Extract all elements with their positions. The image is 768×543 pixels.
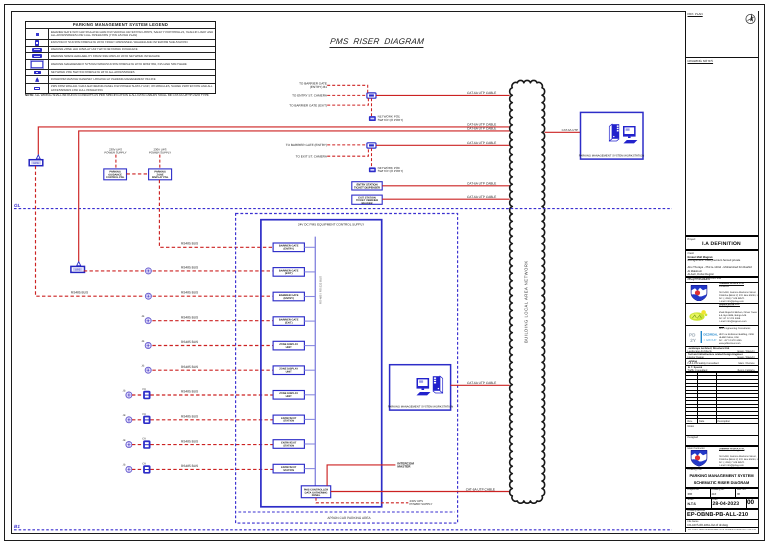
legend row 3: parking display symbol xyxy=(26,46,215,53)
drawing title: PMS RISER DIAGRAM xyxy=(329,37,424,48)
svg-text:JB: JB xyxy=(141,340,144,343)
svg-text:CAT-6A UTP CABLE: CAT-6A UTP CABLE xyxy=(467,195,496,199)
equipment room dashed enclosure xyxy=(236,214,458,524)
svg-text:STATION: STATION xyxy=(283,469,294,472)
junction box JB row 7 xyxy=(123,414,133,423)
level line over cloud xyxy=(506,208,548,210)
legend row 6: network switch symbol xyxy=(26,69,215,76)
wire: to barrier gate exit (red dashed) xyxy=(327,98,368,105)
wire row 9 (red dashed) xyxy=(132,468,273,470)
wire: to entry station (red dashed) xyxy=(327,94,367,96)
wire: D6 tap to RS485 bus xyxy=(304,369,315,371)
svg-text:(ENTRY) B1: (ENTRY) B1 xyxy=(310,85,327,89)
svg-text:RS485 BUS: RS485 BUS xyxy=(71,290,88,294)
svg-text:RS485 BUS: RS485 BUS xyxy=(181,242,198,246)
wire: ES1 to LAN cloud (red) xyxy=(382,185,509,187)
wire: D8 tap to RS485 bus xyxy=(304,418,315,420)
svg-text:MASTER: MASTER xyxy=(397,465,411,469)
wire: D7 tap to RS485 bus xyxy=(304,394,315,396)
svg-text:JB: JB xyxy=(123,389,126,392)
svg-text:CAT-6A UTP CABLE: CAT-6A UTP CABLE xyxy=(467,141,496,145)
svg-text:+ GROUP: + GROUP xyxy=(703,337,716,341)
svg-text:RS485 BUS: RS485 BUS xyxy=(181,265,198,269)
svg-text:UPS: UPS xyxy=(75,269,81,272)
field device box D5: ZONE DISPLAY UNIT xyxy=(273,341,304,350)
wire: to exit station (red dashed) xyxy=(327,148,368,156)
consultant 2 logo block xyxy=(686,303,758,304)
wire: D2 tap to RS485 bus xyxy=(304,271,315,273)
junction box JB row 8 xyxy=(123,439,133,448)
svg-text:POWER SUPPLY: POWER SUPPLY xyxy=(104,151,126,155)
wire: controller 230V UPS supply (red dashed) xyxy=(316,498,408,503)
svg-text:RS485 BUS: RS485 BUS xyxy=(181,315,198,319)
POE switch P1 xyxy=(369,116,376,121)
project/drawing no cells xyxy=(686,487,758,489)
svg-text:CAT-6A UTP: CAT-6A UTP xyxy=(562,128,578,132)
svg-text:RS485 BUS: RS485 BUS xyxy=(181,365,198,369)
field device box D9: ENTRY/EXIT STATION xyxy=(273,440,304,449)
consultant 1 logo block xyxy=(686,282,758,303)
drawing notes section xyxy=(686,57,758,58)
field device box D4: BARRIER GATE (EXIT) xyxy=(273,317,304,326)
field device box D3: BARRIER GATE (ENTRY) xyxy=(273,292,304,301)
legend row 2: entry/exit station symbol xyxy=(26,39,215,46)
svg-text:APRON CAR PARKING AREA: APRON CAR PARKING AREA xyxy=(327,516,371,520)
project section xyxy=(686,235,758,237)
svg-text:CAT-6A UTP CABLE: CAT-6A UTP CABLE xyxy=(467,127,496,131)
scale/date row xyxy=(686,497,758,499)
field device box D6: ZONE DISPLAY UNIT xyxy=(273,366,304,375)
wire: NS1 drop to POE switch (red dashed) xyxy=(371,98,373,116)
svg-text:UPS: UPS xyxy=(33,162,39,165)
wire: ES2 to LAN cloud (red) xyxy=(382,198,509,200)
UPS box U1 (left riser top) xyxy=(29,160,43,166)
svg-text:RS-485 / RS-232 BUS: RS-485 / RS-232 BUS xyxy=(319,276,323,304)
svg-text:TO BARRIER GATE (EXIT): TO BARRIER GATE (EXIT) xyxy=(289,103,327,107)
client section xyxy=(686,249,758,251)
wire: D10 tap to RS485 bus xyxy=(304,468,315,470)
svg-text:CAT-6A UTP CABLE: CAT-6A UTP CABLE xyxy=(466,487,495,491)
svg-text:CR: CR xyxy=(142,413,146,416)
svg-text:RS485 BUS: RS485 BUS xyxy=(181,291,198,295)
svg-text:2Y: 2Y xyxy=(690,338,696,343)
power supply box PS2 (zone display) xyxy=(149,169,172,180)
wire: NS2 drop to POE switch 2 (red dashed) xyxy=(371,148,373,167)
network switch NS2 xyxy=(367,143,376,148)
svg-text:DEZIREAL D.: DEZIREAL D. xyxy=(703,332,718,336)
legend row 1: barrier gate symbol xyxy=(26,28,215,39)
card reader CR row 8 xyxy=(142,438,150,449)
RS485 bus riser (light blue) xyxy=(314,237,316,486)
drawing title section xyxy=(686,467,758,469)
PMS controller panel CP1 xyxy=(301,486,330,498)
wire: CAT-6A from cloud to left riser 2 (red) xyxy=(77,131,510,266)
wire: D1 tap to RS485 bus xyxy=(304,246,315,248)
svg-text:TO BARRIER GATE (ENTRY): TO BARRIER GATE (ENTRY) xyxy=(286,143,327,147)
PMS equipment cabinet (solid blue) xyxy=(261,220,382,507)
svg-text:JB: JB xyxy=(123,439,126,442)
svg-text:CR: CR xyxy=(142,438,146,441)
drawing number section xyxy=(686,508,758,510)
svg-text:(EXIT): (EXIT) xyxy=(285,321,293,324)
svg-text:CAT-6A UTP CABLE: CAT-6A UTP CABLE xyxy=(467,182,496,186)
level line: ground level (blue dashed) xyxy=(14,208,672,210)
wire row 3 (red dashed) xyxy=(152,320,273,322)
LAN cloud: building local area network xyxy=(510,80,545,503)
legend row 7: intercom symbol xyxy=(26,75,215,82)
wire: CAT-6A from cloud to left riser 1 (red) xyxy=(36,127,509,159)
wire: row A continuation to controller cabinet xyxy=(153,295,274,297)
wire: controller to intercom master (red) xyxy=(327,465,395,486)
wire row 7 (red dashed) xyxy=(132,419,273,421)
exit station ES2 xyxy=(352,195,382,205)
field device box D8: ENTRY/EXIT STATION xyxy=(273,415,304,424)
junction box JB row A xyxy=(145,293,151,299)
svg-text:CAT-6A UTP CABLE: CAT-6A UTP CABLE xyxy=(467,381,496,385)
wire: cloud to BMS workstation (red) xyxy=(545,131,581,133)
file name row xyxy=(686,519,758,520)
svg-text:GL: GL xyxy=(14,203,21,208)
svg-text:TICKET DISPENSER: TICKET DISPENSER xyxy=(354,186,380,189)
svg-text:RS485 BUS: RS485 BUS xyxy=(181,464,198,468)
issuing firm logo block xyxy=(686,445,758,447)
POE switch P2 xyxy=(369,167,376,172)
legend note xyxy=(25,93,210,97)
wire: NS2 to LAN cloud (red) xyxy=(376,144,510,146)
svg-text:JB: JB xyxy=(141,315,144,318)
wire: RS485 bus row B (from U2 right, red dashed) xyxy=(84,270,273,272)
svg-text:CONTROL PNL: CONTROL PNL xyxy=(106,176,125,179)
junction box JB row 3 xyxy=(141,315,151,324)
junction box JB row 4 xyxy=(141,340,151,349)
svg-text:PARKING MANAGEMENT SYSTEM WORK: PARKING MANAGEMENT SYSTEM WORKSTATION xyxy=(579,154,645,157)
legend table: PARKING MANAGEMENT SYSTEM LEGEND xyxy=(25,21,216,95)
svg-text:JB: JB xyxy=(123,464,126,467)
junction box JB row 6 xyxy=(123,389,133,398)
svg-text:CAT-6A UTP CABLE: CAT-6A UTP CABLE xyxy=(467,91,496,95)
power supply box PS1 (guidance) xyxy=(104,169,127,180)
field device box D10: ENTRY/EXIT STATION xyxy=(273,464,304,473)
field device box D1: BARRIER GATE (ENTRY) xyxy=(273,243,304,252)
svg-text:PARKING MANAGEMENT SYSTEM WORK: PARKING MANAGEMENT SYSTEM WORKSTATION xyxy=(388,405,454,408)
svg-text:UNIT: UNIT xyxy=(286,346,292,349)
svg-text:SWITCH (8 PORT): SWITCH (8 PORT) xyxy=(378,169,403,173)
junction box JB row 9 xyxy=(123,464,133,473)
wire: link PS1 to PS2 (red dashed) xyxy=(127,173,149,175)
svg-text:RS485 BUS: RS485 BUS xyxy=(181,439,198,443)
junction box JB row 5 xyxy=(141,365,151,374)
svg-text:(EXIT): (EXIT) xyxy=(285,272,293,275)
svg-text:JB: JB xyxy=(141,365,144,368)
svg-text:JB: JB xyxy=(123,414,126,417)
svg-text:POWER SUPPLY: POWER SUPPLY xyxy=(149,151,171,155)
svg-text:RS485 BUS: RS485 BUS xyxy=(181,340,198,344)
wire: D5 tap to RS485 bus xyxy=(304,345,315,347)
wire: D3 tap to RS485 bus xyxy=(304,296,315,298)
legend row 5: workstation symbol xyxy=(26,59,215,69)
field device box D2: BARRIER GATE (EXIT) xyxy=(273,268,304,277)
consultant 3 logo block xyxy=(686,325,758,326)
level line: basement level (blue dashed) xyxy=(14,529,672,531)
wire: PS2 drop to barrier gate row 0 (red dashed) xyxy=(159,180,273,248)
wire row 5 (red dashed) xyxy=(152,369,273,371)
entry station ES1 xyxy=(352,182,382,190)
svg-text:(ENTRY): (ENTRY) xyxy=(283,248,294,251)
PMS workstation box W1 (parking office) xyxy=(388,365,454,410)
north arrow compass xyxy=(744,12,757,25)
svg-text:CR: CR xyxy=(142,388,146,391)
svg-text:UNIT: UNIT xyxy=(286,371,292,374)
svg-text:SWITCH (8 PORT): SWITCH (8 PORT) xyxy=(378,118,403,122)
svg-text:B1: B1 xyxy=(14,524,20,529)
wire: W1 to LAN cloud (red) xyxy=(451,384,510,386)
design consultants bar xyxy=(686,276,758,278)
svg-text:DISPLAY PNL: DISPLAY PNL xyxy=(152,176,169,179)
svg-text:RS485 BUS: RS485 BUS xyxy=(181,415,198,419)
card reader CR row 7 xyxy=(142,413,150,424)
svg-text:PD: PD xyxy=(689,332,696,337)
wire: supply drop to PS2 (red dashed) xyxy=(159,155,161,169)
network switch NS1 xyxy=(367,93,376,98)
legend row 8: pms controller symbol xyxy=(26,83,215,94)
wire: to barrier gate entry (red dashed) xyxy=(327,85,368,93)
svg-text:RS485 BUS: RS485 BUS xyxy=(181,390,198,394)
svg-text:(ENTRY): (ENTRY) xyxy=(283,297,294,300)
wire: D9 tap to RS485 bus xyxy=(304,443,315,445)
card reader CR row 9 xyxy=(142,462,150,473)
card reader CR row 6 xyxy=(142,388,150,399)
title block panel xyxy=(685,11,758,533)
svg-text:UNIT: UNIT xyxy=(286,395,292,398)
junction box JB row B xyxy=(145,268,151,274)
project name I.A DEFINITION xyxy=(686,241,758,247)
equipment room inner partition (dashed) xyxy=(238,511,454,513)
legend row 4: parking counting display symbol xyxy=(26,52,215,59)
svg-text:CR: CR xyxy=(142,462,146,465)
wire row 8 (red dashed) xyxy=(132,444,273,446)
svg-text:PANEL: PANEL xyxy=(312,494,321,497)
UPS box U2 (left riser bottom) xyxy=(71,266,85,272)
svg-text:POWER SUPPLY: POWER SUPPLY xyxy=(410,502,433,506)
svg-text:TO ENTRY ST. CAMERA: TO ENTRY ST. CAMERA xyxy=(292,94,328,98)
bottom note row xyxy=(686,527,758,528)
wire: controller to LAN cloud (red) xyxy=(331,491,510,493)
ref plan section xyxy=(688,12,703,16)
field device box D7: ZONE DISPLAY UNIT xyxy=(273,391,304,400)
wire row 4 (red dashed) xyxy=(152,345,273,347)
wire: NS1 to LAN cloud (red) xyxy=(376,94,510,96)
wire: to barrier gate entry 2 (red dashed) xyxy=(327,144,367,146)
svg-text:24V DC PMS EQUIPMENT CONTROL S: 24V DC PMS EQUIPMENT CONTROL SUPPLY xyxy=(298,222,364,226)
wire: supply drop to PS1 (red dashed) xyxy=(115,155,117,169)
svg-text:STATION: STATION xyxy=(283,444,294,447)
BMS workstation box W2 xyxy=(579,112,645,159)
svg-text:BUILDING LOCAL AREA NETWORK: BUILDING LOCAL AREA NETWORK xyxy=(524,260,529,343)
wire row 6 (red dashed) xyxy=(132,394,273,396)
wire: D4 tap to RS485 bus xyxy=(304,320,315,322)
svg-text:TO EXIT ST. CAMERA: TO EXIT ST. CAMERA xyxy=(296,154,328,158)
svg-text:READER: READER xyxy=(362,202,373,205)
wire: RS485 bus row A (from U1 down and right, red dashed) xyxy=(36,166,145,296)
svg-text:STATION: STATION xyxy=(283,420,294,423)
